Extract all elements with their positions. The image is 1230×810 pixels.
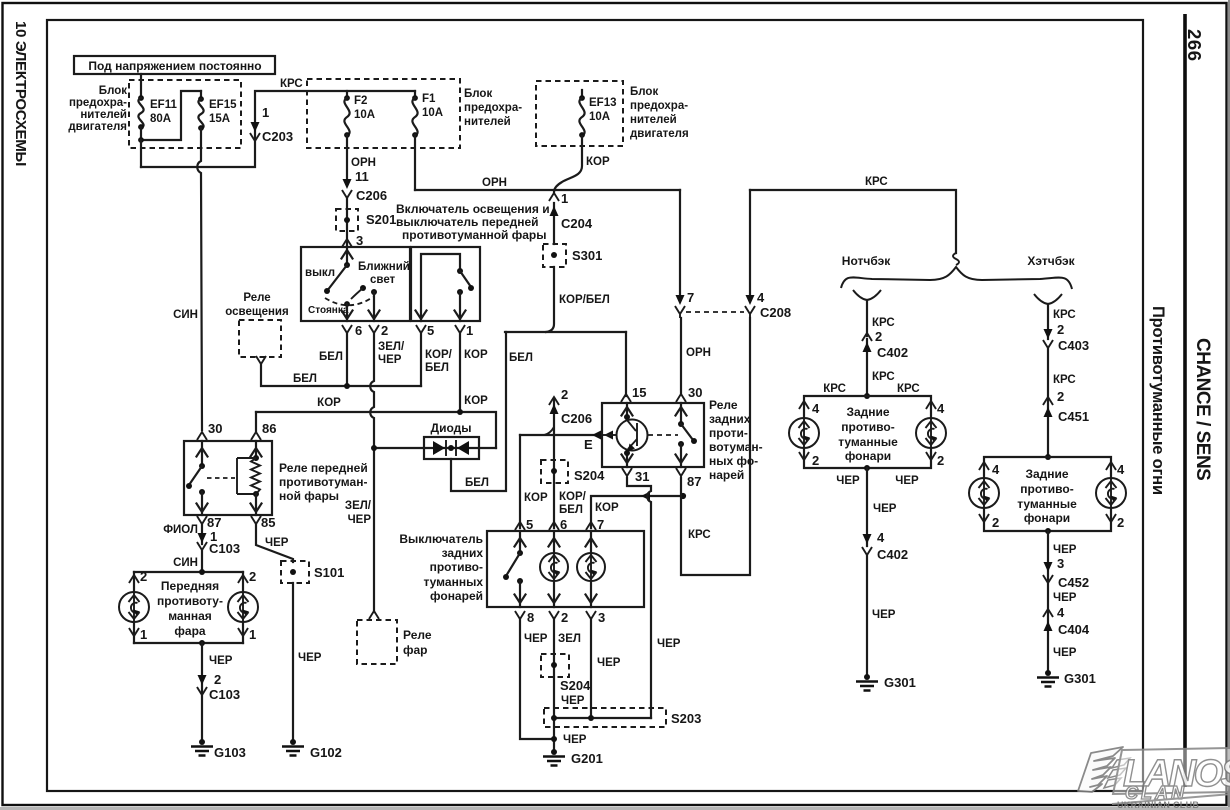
svg-text:4: 4 (937, 401, 945, 416)
svg-text:S101: S101 (314, 565, 344, 580)
svg-text:E: E (584, 437, 593, 452)
svg-text:КРС: КРС (865, 176, 888, 188)
svg-text:C402: C402 (877, 547, 908, 562)
svg-text:БЕЛ: БЕЛ (319, 351, 343, 363)
svg-text:ЗЕЛ/: ЗЕЛ/ (345, 500, 372, 512)
svg-text:1: 1 (249, 627, 256, 642)
svg-text:КОР: КОР (317, 397, 341, 409)
svg-text:EF13: EF13 (589, 97, 617, 109)
svg-text:87: 87 (687, 474, 701, 489)
svg-text:Передняя: Передняя (161, 579, 219, 593)
svg-text:S301: S301 (572, 248, 602, 263)
svg-text:2: 2 (1117, 515, 1124, 530)
svg-text:КРС: КРС (897, 383, 920, 395)
svg-text:ЧЕР: ЧЕР (895, 475, 919, 487)
svg-text:предохра-: предохра- (630, 100, 688, 112)
svg-text:задних: задних (442, 546, 484, 560)
svg-text:ЧЕР: ЧЕР (561, 695, 585, 707)
svg-text:G103: G103 (214, 745, 246, 760)
svg-text:ЧЕР: ЧЕР (657, 638, 681, 650)
svg-text:11: 11 (355, 169, 369, 184)
svg-text:Под напряжением постоянно: Под напряжением постоянно (88, 59, 261, 73)
svg-text:КОР/: КОР/ (425, 349, 453, 361)
svg-text:Задние: Задние (846, 405, 889, 419)
svg-text:фар: фар (403, 643, 428, 657)
svg-text:S203: S203 (671, 711, 701, 726)
svg-text:C404: C404 (1058, 622, 1090, 637)
svg-text:2: 2 (1057, 389, 1064, 404)
svg-text:фонарей: фонарей (430, 589, 483, 603)
svg-text:КРС: КРС (823, 383, 846, 395)
svg-text:S201: S201 (366, 212, 396, 227)
svg-text:фара: фара (174, 624, 206, 638)
svg-text:4: 4 (757, 290, 765, 305)
svg-text:1: 1 (561, 191, 568, 206)
svg-text:31: 31 (635, 469, 649, 484)
svg-text:нителей: нителей (80, 109, 127, 121)
svg-text:15: 15 (632, 385, 646, 400)
svg-text:Нотчбэк: Нотчбэк (842, 254, 891, 268)
svg-text:КОР: КОР (524, 492, 548, 504)
svg-text:БЕЛ: БЕЛ (559, 504, 583, 516)
svg-text:10A: 10A (422, 107, 443, 119)
svg-text:S204: S204 (574, 468, 605, 483)
svg-text:4: 4 (1117, 462, 1125, 477)
svg-text:EF11: EF11 (150, 99, 177, 111)
svg-text:7: 7 (597, 517, 604, 532)
svg-text:C203: C203 (262, 129, 293, 144)
svg-text:10A: 10A (354, 109, 375, 121)
svg-text:C206: C206 (561, 411, 592, 426)
svg-text:2: 2 (249, 569, 256, 584)
svg-text:ЧЕР: ЧЕР (265, 537, 289, 549)
svg-text:КРС: КРС (280, 78, 303, 90)
svg-text:задних: задних (709, 412, 751, 426)
svg-text:предохра-: предохра- (69, 97, 127, 109)
svg-text:ФИОЛ: ФИОЛ (163, 524, 198, 536)
svg-text:КРС: КРС (688, 529, 711, 541)
svg-text:двигателя: двигателя (68, 121, 127, 133)
svg-text:4: 4 (877, 530, 885, 545)
svg-text:1: 1 (262, 105, 269, 120)
svg-text:ЧЕР: ЧЕР (378, 354, 402, 366)
svg-text:ЧЕР: ЧЕР (873, 503, 897, 515)
svg-text:туманные: туманные (1017, 497, 1077, 511)
svg-text:Реле: Реле (403, 628, 432, 642)
svg-text:C403: C403 (1058, 338, 1089, 353)
svg-text:Включатель освещения и: Включатель освещения и (396, 202, 550, 216)
svg-text:CHANCE / SENS: CHANCE / SENS (1192, 338, 1213, 480)
svg-text:Блок: Блок (99, 85, 127, 97)
svg-text:Реле: Реле (243, 292, 270, 304)
svg-text:КОР/: КОР/ (559, 491, 587, 503)
svg-text:4: 4 (812, 401, 820, 416)
svg-text:противо-: противо- (1020, 482, 1073, 496)
svg-text:C103: C103 (209, 541, 240, 556)
svg-text:БЕЛ: БЕЛ (293, 373, 317, 385)
svg-text:противоту-: противоту- (157, 594, 223, 608)
svg-text:свет: свет (370, 274, 396, 286)
svg-text:нителей: нителей (630, 114, 677, 126)
svg-text:КРС: КРС (1053, 309, 1076, 321)
svg-text:86: 86 (262, 421, 276, 436)
svg-text:C451: C451 (1058, 409, 1089, 424)
svg-text:10A: 10A (589, 111, 610, 123)
svg-text:C402: C402 (877, 345, 908, 360)
svg-text:ОРН: ОРН (351, 157, 376, 169)
svg-text:Блок: Блок (630, 86, 658, 98)
svg-text:КОР: КОР (586, 156, 610, 168)
svg-text:1: 1 (466, 323, 473, 338)
svg-text:2: 2 (561, 387, 568, 402)
svg-text:ЧЕР: ЧЕР (1053, 647, 1077, 659)
svg-text:ЗЕЛ/: ЗЕЛ/ (378, 341, 405, 353)
svg-text:ЧЕР: ЧЕР (524, 633, 548, 645)
svg-text:2: 2 (1057, 322, 1064, 337)
svg-text:EF15: EF15 (209, 99, 237, 111)
svg-text:нарей: нарей (709, 468, 744, 482)
svg-text:вотуман-: вотуман- (709, 440, 763, 454)
svg-text:фонари: фонари (1024, 511, 1070, 525)
svg-text:4: 4 (992, 462, 1000, 477)
svg-text:ОРН: ОРН (482, 177, 507, 189)
svg-text:КОР: КОР (464, 395, 488, 407)
svg-text:Реле передней: Реле передней (279, 461, 368, 475)
svg-text:противотуман-: противотуман- (279, 475, 367, 489)
svg-text:ОРН: ОРН (686, 347, 711, 359)
svg-text:Задние: Задние (1025, 467, 1068, 481)
svg-text:30: 30 (688, 385, 702, 400)
svg-text:30: 30 (208, 421, 222, 436)
svg-text:противо-: противо- (841, 420, 894, 434)
svg-text:2: 2 (937, 453, 944, 468)
svg-text:Ближний: Ближний (358, 261, 410, 273)
svg-text:Реле: Реле (709, 398, 738, 412)
svg-text:2: 2 (140, 569, 147, 584)
svg-text:БЕЛ: БЕЛ (465, 477, 489, 489)
svg-text:F1: F1 (422, 93, 436, 105)
svg-text:87: 87 (207, 515, 221, 530)
svg-text:фонари: фонари (845, 449, 891, 463)
svg-text:СИН: СИН (173, 557, 198, 569)
svg-text:G102: G102 (310, 745, 342, 760)
svg-text:ЧЕР: ЧЕР (597, 657, 621, 669)
svg-text:4: 4 (1057, 605, 1065, 620)
svg-text:КРС: КРС (872, 371, 895, 383)
svg-text:КРС: КРС (1053, 374, 1076, 386)
svg-text:G301: G301 (884, 675, 916, 690)
svg-text:8: 8 (527, 610, 534, 625)
svg-text:1: 1 (140, 627, 147, 642)
svg-text:ЧЕР: ЧЕР (1053, 592, 1077, 604)
svg-text:C103: C103 (209, 687, 240, 702)
svg-text:манная: манная (168, 609, 212, 623)
svg-text:6: 6 (560, 517, 567, 532)
svg-text:Противотуманные огни: Противотуманные огни (1149, 306, 1167, 495)
svg-text:КОР: КОР (464, 349, 488, 361)
svg-text:Диоды: Диоды (431, 421, 472, 435)
svg-text:266: 266 (1184, 29, 1205, 62)
svg-text:3: 3 (356, 233, 363, 248)
svg-text:выкл: выкл (305, 267, 335, 279)
svg-text:2: 2 (214, 672, 221, 687)
svg-text:2: 2 (812, 453, 819, 468)
svg-text:85: 85 (261, 515, 275, 530)
svg-text:БЕЛ: БЕЛ (509, 352, 533, 364)
svg-text:ЧЕР: ЧЕР (1053, 544, 1077, 556)
svg-text:двигателя: двигателя (630, 128, 689, 140)
svg-text:ЧЕР: ЧЕР (836, 475, 860, 487)
svg-text:ЧЕР: ЧЕР (298, 652, 322, 664)
svg-text:UKRAINIAN CLUB: UKRAINIAN CLUB (1117, 800, 1199, 810)
svg-text:Хэтчбэк: Хэтчбэк (1027, 254, 1075, 268)
svg-text:БЕЛ: БЕЛ (425, 362, 449, 374)
svg-text:СИН: СИН (173, 309, 198, 321)
svg-text:G201: G201 (571, 751, 603, 766)
svg-text:Блок: Блок (464, 88, 492, 100)
svg-text:нителей: нителей (464, 116, 511, 128)
svg-text:проти-: проти- (709, 426, 748, 440)
svg-text:F2: F2 (354, 95, 367, 107)
svg-text:КОР: КОР (595, 502, 619, 514)
svg-text:G301: G301 (1064, 671, 1096, 686)
svg-text:C204: C204 (561, 216, 593, 231)
svg-text:5: 5 (526, 517, 533, 532)
svg-text:КРС: КРС (872, 317, 895, 329)
svg-text:6: 6 (355, 323, 362, 338)
svg-text:противотуманной фары: противотуманной фары (402, 228, 547, 242)
svg-text:Выключатель: Выключатель (399, 532, 483, 546)
svg-text:туманных: туманных (423, 575, 483, 589)
svg-text:3: 3 (1057, 556, 1064, 571)
svg-text:80A: 80A (150, 113, 171, 125)
svg-text:2: 2 (561, 610, 568, 625)
svg-text:противо-: противо- (430, 560, 483, 574)
svg-text:2: 2 (875, 329, 882, 344)
svg-text:2: 2 (992, 515, 999, 530)
svg-text:15A: 15A (209, 113, 230, 125)
svg-text:10 ЭЛЕКТРОСХЕМЫ: 10 ЭЛЕКТРОСХЕМЫ (12, 21, 29, 166)
svg-text:предохра-: предохра- (464, 102, 522, 114)
svg-text:ной фары: ной фары (279, 489, 339, 503)
svg-text:C208: C208 (760, 305, 791, 320)
svg-text:7: 7 (687, 290, 694, 305)
svg-text:ЧЕР: ЧЕР (348, 514, 372, 526)
svg-text:5: 5 (427, 323, 434, 338)
svg-text:2: 2 (381, 323, 388, 338)
svg-text:C206: C206 (356, 188, 387, 203)
svg-text:туманные: туманные (838, 435, 898, 449)
svg-text:ЗЕЛ: ЗЕЛ (558, 633, 581, 645)
svg-text:C452: C452 (1058, 575, 1089, 590)
svg-text:ЧЕР: ЧЕР (563, 734, 587, 746)
svg-text:выключатель передней: выключатель передней (396, 215, 539, 229)
svg-text:КОР/БЕЛ: КОР/БЕЛ (559, 294, 610, 306)
svg-text:S204: S204 (560, 678, 591, 693)
svg-text:освещения: освещения (225, 306, 288, 318)
svg-text:ЧЕР: ЧЕР (209, 655, 233, 667)
svg-text:ЧЕР: ЧЕР (872, 609, 896, 621)
svg-text:3: 3 (598, 610, 605, 625)
